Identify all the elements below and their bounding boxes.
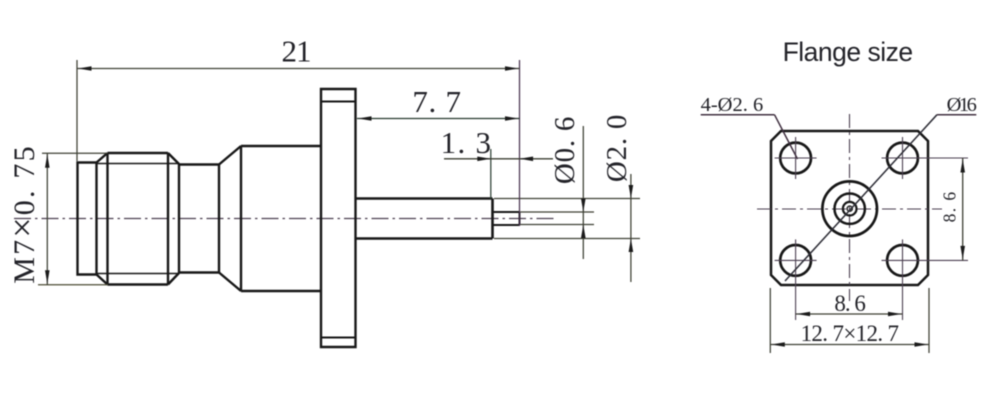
hex coupling nut (97, 153, 180, 285)
label 4-dia2.6 (701, 94, 798, 159)
dimension dia 0.6 pin (549, 116, 586, 259)
center conductor circles (822, 181, 877, 236)
dimension M7x0.75 thread (2, 144, 108, 285)
dimension 12.7x12.7 (770, 288, 929, 353)
svg-text:8. 6: 8. 6 (834, 291, 865, 316)
title Flange size (783, 37, 913, 67)
flange vertical centerline (849, 114, 851, 301)
cone transition (219, 146, 241, 291)
centerline side-view axis (14, 218, 556, 220)
main body (241, 146, 321, 291)
center pin (493, 212, 520, 225)
svg-text:4-Ø2. 6: 4-Ø2. 6 (701, 94, 764, 116)
svg-text:12. 7×12. 7: 12. 7×12. 7 (801, 321, 899, 346)
dimension 1.3 pin protrusion (441, 125, 553, 199)
diagonal leader (785, 115, 937, 281)
svg-text:Ø2. 0: Ø2. 0 (601, 114, 633, 182)
dimension 7.7 (357, 84, 520, 121)
neck section (179, 165, 219, 273)
svg-text:Ø16: Ø16 (947, 94, 977, 116)
svg-text:21: 21 (282, 34, 311, 69)
connector back washer outline (78, 163, 97, 275)
dimension dia 2.0 (601, 114, 633, 282)
flange side view (321, 89, 356, 347)
pin extension lines (520, 212, 595, 225)
flange square outline (771, 131, 928, 285)
cylinder extension lines (494, 199, 640, 239)
svg-text:8. 6: 8. 6 (940, 190, 960, 222)
four mounting holes (780, 143, 918, 276)
svg-text:1. 3: 1. 3 (441, 125, 493, 160)
svg-text:Ø0. 6: Ø0. 6 (549, 116, 581, 184)
dimension 8.6 horizontal (796, 291, 903, 316)
hole centerlines (775, 137, 968, 320)
svg-text:7. 7: 7. 7 (412, 84, 461, 119)
svg-text:M7×0. 75: M7×0. 75 (2, 144, 42, 284)
dimension 8.6 vertical (940, 158, 966, 260)
flange horizontal centerline (757, 208, 942, 210)
label dia16 (937, 94, 977, 116)
dimension 21 overall length (77, 34, 520, 227)
svg-text:Flange size: Flange size (783, 37, 913, 67)
rear cylinder (356, 199, 493, 239)
